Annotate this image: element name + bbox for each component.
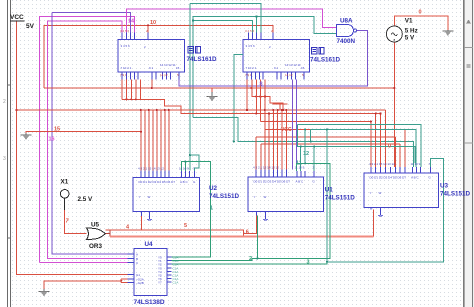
- wire green net3 U4 Y2 to U3: [172, 262, 327, 264]
- svg-text:X1: X1: [61, 179, 69, 186]
- wire green U7 left pin: [234, 54, 243, 141]
- svg-text:W: W: [148, 195, 151, 199]
- wire bus h1: [17, 109, 386, 111]
- mux U2 74LS151D: [133, 171, 200, 221]
- wire V1 top to ground: [394, 16, 448, 30]
- svg-text:VCC: VCC: [281, 127, 292, 133]
- svg-text:7 9 1: 7 9 1: [120, 73, 127, 77]
- label U6 高片 74LS161D: [187, 47, 218, 64]
- svg-text:3 4 5 6: 3 4 5 6: [245, 29, 255, 33]
- ground mid under net: [207, 92, 218, 102]
- wire red branch up to U6 pin: [151, 79, 153, 88]
- svg-text:7 10 2 1: 7 10 2 1: [246, 66, 257, 70]
- wire net10 red top: [44, 25, 273, 88]
- wire teal hook to U2 G pin: [190, 155, 199, 171]
- wire red ground row: [44, 87, 394, 89]
- wire magenta left inner: [48, 21, 128, 258]
- label U3: [440, 183, 471, 198]
- svg-text:V1: V1: [405, 18, 413, 25]
- wire purple top to U7 pin: [52, 13, 131, 33]
- svg-text:9 1: 9 1: [274, 66, 279, 70]
- wire U7 drops: [246, 79, 248, 110]
- svg-text:U8A: U8A: [340, 18, 353, 25]
- wire magenta left to U4 pin C: [39, 262, 127, 264]
- svg-text:7 9 1: 7 9 1: [245, 73, 252, 77]
- svg-text:2.5 V: 2.5 V: [78, 196, 94, 203]
- svg-text:11: 11: [296, 161, 302, 167]
- svg-text:Y: Y: [139, 195, 141, 199]
- svg-text:2: 2: [3, 99, 6, 105]
- wire bus staircase QA: [122, 99, 381, 113]
- svg-text:0: 0: [388, 144, 391, 150]
- svg-text:14: 14: [128, 19, 135, 25]
- svg-text:Y7: Y7: [158, 281, 162, 285]
- wire U5 output manifold: [105, 233, 110, 235]
- svg-text:8: 8: [260, 82, 263, 88]
- svg-text:3 4 5 6: 3 4 5 6: [121, 44, 131, 48]
- gate U8A 7400N: [337, 18, 357, 45]
- wire U6 RCO drop: [140, 79, 142, 99]
- svg-text:B: B: [136, 257, 138, 261]
- svg-text:5V: 5V: [26, 23, 35, 30]
- power VCC bar mid: [273, 103, 288, 105]
- wire teal drop to U1 B: [300, 147, 302, 172]
- label U2: [209, 185, 240, 200]
- wire teal B to U8A input: [193, 17, 337, 118]
- svg-text:10: 10: [150, 20, 156, 26]
- svg-text:74LS161D: 74LS161D: [187, 56, 218, 63]
- wire X1 lead: [64, 198, 66, 210]
- power VCC symbol top-left: [10, 14, 35, 30]
- wire U2 taps: [140, 110, 142, 171]
- svg-text:74LS161D: 74LS161D: [310, 57, 341, 64]
- wire VCC rail vertical: [17, 21, 128, 275]
- wire net5: [110, 230, 244, 237]
- counter U7 74LS161D 低片: [236, 33, 310, 80]
- svg-text:A B C: A B C: [411, 176, 420, 180]
- svg-text:11 10 9: 11 10 9: [411, 162, 421, 166]
- wire bus h8: [261, 143, 400, 145]
- wire V1 bottom: [393, 42, 395, 167]
- ground right of V1: [443, 30, 454, 36]
- gate U5 OR3: [87, 222, 106, 251]
- svg-text:4 3 2 1 15 14 13 12: 4 3 2 1 15 14 13 12: [369, 162, 395, 166]
- wire green U4 Y0 to U2: [172, 162, 211, 257]
- svg-text:1: 1: [210, 206, 213, 212]
- svg-text:7 10 2 1: 7 10 2 1: [121, 66, 132, 70]
- svg-text:3: 3: [307, 260, 310, 266]
- wire net15 ground left: [26, 132, 141, 134]
- wire green net2 U4 Y1 to U1: [172, 163, 330, 260]
- svg-text:D0 D1 D2 D3 D4 D5 D6 D7: D0 D1 D2 D3 D4 D5 D6 D7: [370, 176, 407, 180]
- svg-text:14 13 12 11: 14 13 12 11: [160, 63, 176, 67]
- wire purple pair to U1 selects: [292, 79, 294, 169]
- label U4: [134, 241, 165, 306]
- ground bottom left: [39, 289, 50, 297]
- svg-text:3 4 5 6: 3 4 5 6: [120, 29, 130, 33]
- wire teal A top to U7: [190, 3, 261, 32]
- wire purple left: [52, 13, 128, 254]
- wire bus h4: [260, 121, 370, 123]
- scrollbar right: [464, 0, 474, 307]
- wire U1 strobe drop: [244, 216, 257, 234]
- svg-text:6: 6: [246, 230, 249, 236]
- svg-text:OR3: OR3: [89, 243, 102, 250]
- wire U3 taps: [370, 122, 372, 167]
- decoder U4 74LS138D: [128, 249, 172, 296]
- wire U8A output purple net8: [179, 31, 367, 87]
- wire teal right mesh y129.4: [311, 129, 416, 167]
- svg-text:74LS151D: 74LS151D: [440, 191, 471, 198]
- mux U1 74LS151D: [248, 170, 324, 221]
- svg-text:12: 12: [303, 151, 309, 157]
- svg-text:W: W: [264, 195, 267, 199]
- label U7 低片 74LS161D: [310, 48, 341, 64]
- svg-text:A B C: A B C: [296, 180, 305, 184]
- wire U1 taps: [255, 137, 257, 170]
- wire red branch U7 pin2 to clock: [250, 87, 252, 89]
- wire teal A vertical beside U6: [189, 3, 191, 170]
- svg-text:11 10 9: 11 10 9: [179, 167, 189, 171]
- svg-text:4 3 2 1 15 14 13 12: 4 3 2 1 15 14 13 12: [253, 166, 279, 170]
- source V1: [386, 18, 417, 43]
- svg-text:U1: U1: [325, 187, 334, 194]
- wire U6 QC drop: [130, 79, 132, 99]
- svg-text:74LS151D: 74LS151D: [209, 193, 240, 200]
- indicator X1: [60, 179, 93, 204]
- svg-text:4 3 2 1 15 14 13 12: 4 3 2 1 15 14 13 12: [138, 167, 164, 171]
- mux U3 74LS151D: [364, 167, 439, 216]
- svg-text:D0 D1 D2 D3 D4 D5 D6 D7: D0 D1 D2 D3 D4 D5 D6 D7: [139, 180, 176, 184]
- wire teal drop to U1 G: [313, 147, 315, 172]
- wire U6 QB drop: [126, 79, 128, 99]
- svg-text:Y: Y: [254, 195, 256, 199]
- svg-text:U3: U3: [440, 183, 449, 190]
- wire teal mesh row y146.5: [298, 125, 416, 163]
- svg-text:~G2B: ~G2B: [136, 281, 144, 285]
- wire teal stub at 305: [304, 129, 306, 163]
- svg-text:C1A: C1A: [173, 281, 179, 285]
- wire to U4 G2A G2B: [121, 278, 127, 280]
- svg-text:14 12: 14 12: [285, 73, 293, 77]
- svg-text:15: 15: [301, 66, 305, 70]
- sheet border left: [8, 0, 11, 307]
- svg-text:16: 16: [49, 137, 55, 143]
- svg-text:A B C: A B C: [180, 180, 189, 184]
- svg-text:74LS151D: 74LS151D: [325, 195, 356, 202]
- wire bus h6: [265, 129, 405, 131]
- label U1: [325, 187, 356, 202]
- wire U6 QA drop: [121, 79, 123, 99]
- svg-text:5 V: 5 V: [405, 34, 415, 41]
- svg-text:U4: U4: [145, 241, 154, 248]
- svg-text:3: 3: [3, 156, 6, 162]
- svg-text:VCC: VCC: [10, 14, 24, 21]
- wire net4 U5 out to U2: [106, 214, 142, 231]
- svg-text:0: 0: [419, 10, 422, 16]
- counter U6 74LS161D 高片: [118, 33, 185, 80]
- wire magenta top net14: [127, 9, 337, 33]
- svg-text:15: 15: [176, 66, 180, 70]
- svg-text:U5: U5: [91, 222, 100, 229]
- svg-text:74LS138D: 74LS138D: [134, 299, 165, 306]
- node junction on VCC rail: [15, 109, 17, 111]
- wire net6 to U3: [110, 236, 374, 238]
- wire U6 QD drop: [135, 79, 137, 99]
- svg-text:W: W: [379, 191, 382, 195]
- wire net7 X1 to U5: [65, 210, 87, 234]
- svg-text:2: 2: [249, 256, 252, 262]
- svg-text:14 13 12 11: 14 13 12 11: [285, 63, 301, 67]
- wire teal staircase to U3: [193, 118, 414, 167]
- svg-text:Y: Y: [370, 191, 372, 195]
- ground left net15: [21, 133, 32, 140]
- svg-text:5: 5: [184, 223, 187, 229]
- svg-text:15: 15: [54, 127, 60, 133]
- svg-text:D0 D1 D2 D3 D4 D5 D6 D7: D0 D1 D2 D3 D4 D5 D6 D7: [254, 180, 291, 184]
- net labels: [49, 10, 422, 266]
- wire magenta left outer: [39, 17, 134, 263]
- wire U1 bottom pin to net2: [256, 216, 258, 259]
- wire red ground bottom left: [44, 281, 121, 292]
- wire teal right mesh y124.6: [298, 125, 422, 167]
- node V1 junction: [393, 87, 395, 89]
- wire bus h7: [256, 136, 395, 138]
- svg-text:7400N: 7400N: [337, 38, 356, 45]
- svg-text:14 12: 14 12: [160, 73, 168, 77]
- svg-text:3 4 5 6: 3 4 5 6: [246, 44, 256, 48]
- svg-text:A: A: [136, 252, 138, 256]
- wire net10 stub to U6 pin5: [147, 25, 149, 33]
- svg-text:U2: U2: [209, 185, 218, 192]
- svg-text:9 1: 9 1: [149, 66, 154, 70]
- wire teal B drop to U7 pin: [256, 17, 258, 33]
